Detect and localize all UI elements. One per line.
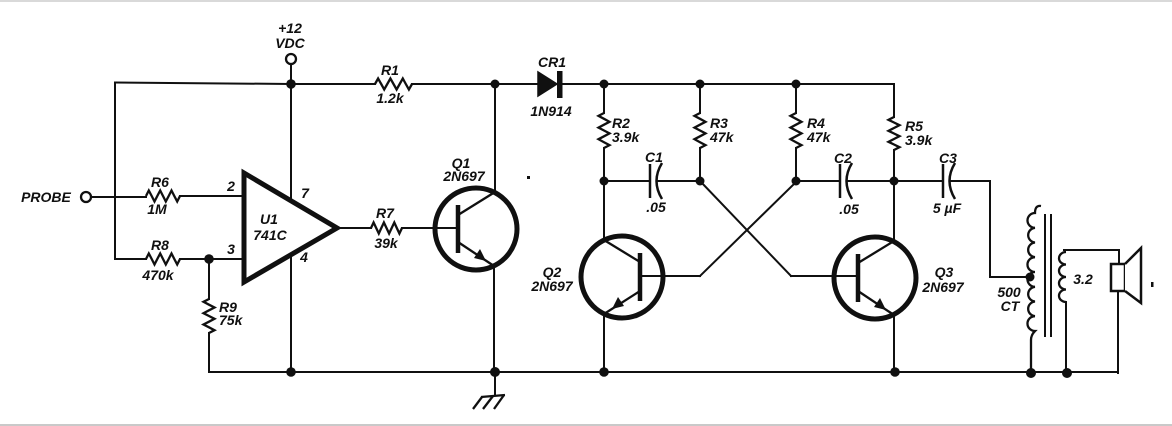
svg-text:U1: U1 [260,211,278,227]
svg-text:CR1: CR1 [538,54,566,70]
svg-text:5 µF: 5 µF [933,200,962,216]
svg-text:3.2: 3.2 [1073,271,1093,287]
svg-text:C3: C3 [939,150,957,166]
svg-text:2: 2 [226,178,235,194]
svg-text:4: 4 [299,249,308,265]
svg-text:R6: R6 [151,174,169,190]
svg-text:C2: C2 [834,150,852,166]
svg-text:2N697: 2N697 [921,279,964,295]
svg-text:1N914: 1N914 [530,103,571,119]
svg-text:1.2k: 1.2k [376,90,404,106]
svg-text:47k: 47k [709,129,735,145]
svg-text:470k: 470k [141,267,174,283]
svg-text:2N697: 2N697 [530,278,573,294]
svg-text:CT: CT [1001,298,1021,314]
svg-text:3.9k: 3.9k [612,129,640,145]
svg-text:Q3: Q3 [935,264,954,280]
svg-text:39k: 39k [374,235,399,251]
svg-text:3.9k: 3.9k [905,132,933,148]
svg-text:741C: 741C [253,227,287,243]
svg-text:2N697: 2N697 [442,168,485,184]
svg-text:R8: R8 [151,237,169,253]
svg-text:VDC: VDC [275,35,305,51]
svg-text:75k: 75k [219,312,244,328]
svg-text:47k: 47k [806,129,832,145]
svg-text:3: 3 [227,241,235,257]
svg-text:1M: 1M [147,201,167,217]
svg-text:.05: .05 [646,199,666,215]
svg-text:R7: R7 [376,205,395,221]
svg-text:PROBE: PROBE [21,189,71,205]
svg-text:7: 7 [301,185,310,201]
svg-text:.05: .05 [839,201,859,217]
svg-text:C1: C1 [645,149,663,165]
svg-text:R1: R1 [381,62,399,78]
svg-text:+12: +12 [278,20,302,36]
